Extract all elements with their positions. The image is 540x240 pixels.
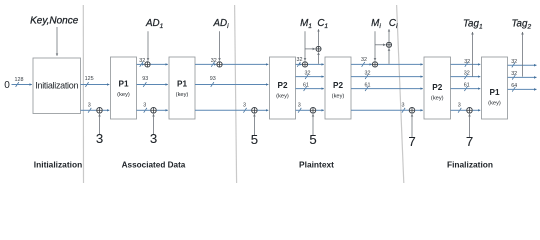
svg-text:(key): (key) xyxy=(176,92,189,98)
wire: P2(PT1) to M1-xor top xyxy=(296,63,302,65)
wire: constant 5 up into xor (after P1 ADi) xyxy=(253,114,255,136)
xor: M1 into state xyxy=(302,62,307,67)
bus slash P2(PT1) top out xyxy=(297,62,300,67)
wire: P1(final) top output xyxy=(508,64,537,66)
svg-text:Key,Nonce: Key,Nonce xyxy=(30,16,79,27)
wire: P2(final) to P1(final) top xyxy=(451,63,481,65)
svg-text:P1: P1 xyxy=(177,79,187,88)
svg-text:Initialization: Initialization xyxy=(34,159,82,169)
svg-text:3: 3 xyxy=(243,102,246,108)
svg-text:93: 93 xyxy=(142,76,148,82)
wire: P2(PTi) to Mi-xor top xyxy=(351,63,372,65)
wire: 0 into Initialization xyxy=(12,84,32,86)
bus slash before xor (after P2 final) xyxy=(458,108,461,113)
wire: AD1-xor to P1(ADi) top xyxy=(150,63,167,65)
svg-text:3: 3 xyxy=(143,102,146,108)
xor: ADi into state xyxy=(217,62,222,67)
wire: ADi down into xor xyxy=(219,31,221,60)
permutation block P2 (plaintext i) xyxy=(325,57,351,119)
bus slash P1(ADi) top out xyxy=(211,62,214,67)
bus slash P1(AD1) top out xyxy=(140,62,143,67)
svg-text:5: 5 xyxy=(309,132,316,147)
wire: into constant-xor (after P2 final) xyxy=(451,109,467,111)
wire: P2(PTi) to P2(final) line2 xyxy=(351,76,423,78)
bus slash P2(final)->P1(final) wire2 xyxy=(464,74,467,79)
bus slash on Init->P1 wire xyxy=(85,82,88,87)
svg-text:Associated Data: Associated Data xyxy=(122,160,186,169)
svg-text:3: 3 xyxy=(458,102,461,108)
wire: Mi down into state xor xyxy=(374,31,376,60)
xor: AD1 into state xyxy=(145,62,150,67)
svg-text:3: 3 xyxy=(88,102,91,108)
wire: into constant-xor (after P1 ADi) xyxy=(195,109,251,111)
wire: Tag1 up from state xyxy=(472,32,474,77)
svg-text:125: 125 xyxy=(85,76,94,82)
xor: round constant 5 (after P1 ADi) xyxy=(252,108,258,114)
wire: P1(AD1) to AD1-xor top xyxy=(137,63,145,65)
wire: P1(final) output line3 xyxy=(508,88,537,90)
permutation block P2 (finalization) xyxy=(424,57,451,119)
svg-text:(key): (key) xyxy=(332,93,345,99)
xor: round constant 3 (after P1 AD1) xyxy=(151,108,157,114)
bus slash before xor (after P2 PT1) xyxy=(298,108,301,113)
bus slash P2(PTi)->P2(final) wire2 xyxy=(365,74,368,79)
svg-text:(key): (key) xyxy=(488,101,501,107)
wire: P2(PT1) to P2(PTi) line2 xyxy=(296,76,324,78)
svg-text:5: 5 xyxy=(251,132,258,147)
svg-text:32: 32 xyxy=(361,57,367,63)
bus slash P2(PTi) top out xyxy=(362,62,365,67)
bus slash P2(final)->P1(final) top xyxy=(465,62,468,67)
svg-text:Finalization: Finalization xyxy=(447,159,493,169)
wire: constant 3 up into xor (after Init) xyxy=(99,114,101,135)
permutation block P2 (plaintext 1) xyxy=(270,57,296,119)
bus slash P2(PT1)->P2(PTi) wire2 xyxy=(305,74,308,79)
phase separator: Initialization | Associated Data xyxy=(82,5,84,183)
svg-text:3: 3 xyxy=(298,102,301,108)
bus slash before xor (after P1 ADi) xyxy=(243,108,246,113)
xor: round constant 3 (after Init) xyxy=(97,108,103,114)
bus slash P1(final) out wire2 xyxy=(512,75,515,80)
permutation block P1 (assoc-data i) xyxy=(169,57,195,119)
wire: into constant-xor (after P2 PT1) xyxy=(296,109,310,111)
xor: ciphertext Ci xyxy=(386,42,391,47)
wire: into constant-xor (after P1 AD1) xyxy=(137,109,151,111)
wire: P2(final) to P1(final) line2 xyxy=(451,76,481,78)
bus slash P2(final)->P1(final) wire3 xyxy=(464,86,467,91)
svg-text:Initialization: Initialization xyxy=(35,81,78,91)
wire: ADi-xor to P2(PT1) top xyxy=(222,63,268,65)
permutation block P1 (assoc-data 1) xyxy=(111,57,137,119)
svg-text:P1: P1 xyxy=(118,79,128,88)
svg-text:3: 3 xyxy=(150,131,157,146)
wire: P2(PTi) to P2(final) line3 xyxy=(351,88,423,90)
wire: constant-xor onward (after P2 PT1) xyxy=(316,109,324,111)
wire: constant-xor onward (after Init) xyxy=(102,109,109,111)
xor: round constant 7 (after P2 final) xyxy=(467,108,473,114)
svg-text:128: 128 xyxy=(15,77,24,83)
wire: Mi-xor to P2(final) top xyxy=(378,63,423,65)
wire: Mi branch to C-xor xyxy=(375,44,386,46)
wire: M1 branch to C-xor xyxy=(305,48,315,50)
svg-text:P2: P2 xyxy=(277,81,287,90)
wire: constant-xor onward (after P2 PTi) xyxy=(415,109,423,111)
svg-text:P2: P2 xyxy=(432,83,442,92)
svg-text:7: 7 xyxy=(466,134,473,149)
wire: state tap up into C-xor xyxy=(318,52,320,64)
svg-text:32: 32 xyxy=(297,57,303,63)
bus slash before xor (after P1 AD1) xyxy=(144,108,147,113)
bus slash P2(PT1)->P2(PTi) wire3 xyxy=(304,86,307,91)
wire: Ci up output xyxy=(388,29,390,41)
svg-text:(key): (key) xyxy=(117,92,130,98)
wire: constant-xor onward (after P1 ADi) xyxy=(257,109,268,111)
bus slash P2(PTi)->P2(final) wire3 xyxy=(365,86,368,91)
bus slash before xor (after Init) xyxy=(88,108,91,113)
phase separator: Plaintext | Finalization xyxy=(397,5,404,183)
svg-text:(key): (key) xyxy=(276,93,289,99)
wire: Tag2 up from state xyxy=(522,32,524,77)
wire: constant 3 up into xor (after P1 AD1) xyxy=(153,114,155,135)
wire: P2(PT1) to P2(PTi) line3 xyxy=(296,88,324,90)
wire: state P1(ADi) to P2(PT1) mid xyxy=(195,84,268,86)
wire: C1 up output xyxy=(318,29,320,46)
wire: constant 7 up into xor (after P2 final) xyxy=(469,114,471,138)
wire: constant 5 up into xor (after P2 PT1) xyxy=(312,114,314,136)
wire: into constant-xor (after P2 PTi) xyxy=(351,109,409,111)
svg-text:0: 0 xyxy=(4,80,10,91)
svg-text:3: 3 xyxy=(96,131,103,146)
bus slash P1(AD1)->P1(ADi) mid xyxy=(143,82,146,87)
block Initialization xyxy=(33,58,81,114)
wire: constant 7 up into xor (after P2 PTi) xyxy=(411,114,413,138)
xor: round constant 7 (after P2 PTi) xyxy=(409,108,415,114)
wire: constant-xor onward (after P1 AD1) xyxy=(156,109,167,111)
xor: round constant 5 (after P2 PT1) xyxy=(310,108,316,114)
wire: P1(final) output line2 xyxy=(508,76,537,78)
wire: P1(ADi) to ADi-xor top xyxy=(195,63,216,65)
wire: into constant-xor (after Init) xyxy=(81,109,97,111)
wire: Key,Nonce into Initialization (vertical arrow) xyxy=(56,27,58,56)
wire: P2(final) to P1(final) line3 xyxy=(451,88,481,90)
wire: constant-xor onward (after P2 final) xyxy=(472,109,480,111)
bus slash on 0-wire xyxy=(16,82,19,87)
bus slash P1(ADi)->P2 mid xyxy=(211,82,214,87)
svg-text:7: 7 xyxy=(408,134,415,149)
phase separator: Associated Data | Plaintext xyxy=(235,5,237,183)
xor: ciphertext C1 xyxy=(316,46,321,51)
bus slash P1(final) out wire3 xyxy=(512,87,515,92)
svg-text:P1: P1 xyxy=(489,88,499,97)
svg-text:(key): (key) xyxy=(431,96,444,102)
svg-text:3: 3 xyxy=(402,102,405,108)
wire: state Init to P1(AD1) mid xyxy=(81,84,110,86)
svg-text:93: 93 xyxy=(210,76,216,82)
bus slash before xor (after P2 PTi) xyxy=(402,108,405,113)
wire: M1 down into state xor xyxy=(304,31,306,60)
wire: M1-xor to P2(PTi) top xyxy=(308,63,324,65)
xor: Mi into state xyxy=(372,62,377,67)
wire: state P1(AD1) to P1(ADi) mid xyxy=(137,84,168,86)
wire: AD1 down into xor xyxy=(147,31,149,60)
svg-text:Plaintext: Plaintext xyxy=(299,159,334,169)
svg-text:ADi: ADi xyxy=(212,18,229,30)
bus slash P1(final) top out xyxy=(512,63,515,68)
permutation block P1 (finalization) xyxy=(482,57,508,119)
wire: state tap up into C-xor xyxy=(388,48,390,64)
svg-text:P2: P2 xyxy=(333,81,343,90)
